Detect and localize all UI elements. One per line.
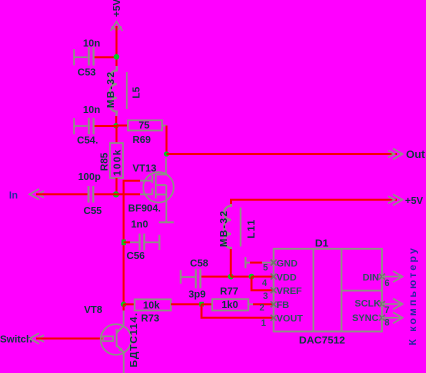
node junction VT8 collector/R73 [121, 302, 127, 308]
svg-text:R69: R69 [133, 135, 152, 146]
power +5V top label [112, 0, 123, 17]
wire SYNC stub [382, 312, 403, 323]
wire node to R77 [202, 303, 213, 305]
node junction rail/C56 [122, 240, 126, 246]
wire L5 to node [115, 116, 117, 127]
svg-text:БДТС114.: БДТС114. [128, 312, 140, 367]
wire collector [123, 304, 125, 325]
pin cross VOUT [271, 315, 277, 321]
svg-text:10n: 10n [83, 39, 100, 50]
wire node to gate1 [117, 193, 153, 195]
wire R69 to out node [166, 126, 168, 155]
node junction C53/+5V [114, 54, 120, 60]
wire node to R69 [116, 125, 128, 127]
wire VOUT pin [202, 304, 274, 318]
svg-text:C56: C56 [127, 251, 146, 262]
svg-text:R85: R85 [100, 152, 111, 171]
svg-text:R77: R77 [220, 287, 239, 298]
transistor VT8 [84, 305, 140, 368]
wire DIN stub [382, 271, 403, 282]
svg-text:VT8: VT8 [84, 305, 103, 316]
svg-text:C54.: C54. [77, 136, 98, 147]
svg-text:К компьютеру: К компьютеру [407, 246, 419, 346]
wire C54 to node [95, 125, 117, 127]
wire L11 bottom to node [230, 249, 232, 277]
svg-text:10k: 10k [143, 301, 160, 312]
svg-text:L5: L5 [132, 86, 143, 98]
capacitor C54 [74, 105, 100, 147]
inductor L5 [106, 66, 143, 117]
node junction VDD/VREF [249, 274, 255, 280]
svg-text:Switch: Switch [0, 335, 32, 346]
svg-text:GND: GND [277, 258, 298, 269]
wire VT8 emitter [123, 352, 125, 373]
svg-text:FB: FB [277, 300, 290, 311]
pin cross SCLK [379, 301, 385, 307]
svg-text:2: 2 [260, 303, 265, 313]
svg-text:VOUT: VOUT [277, 314, 304, 325]
svg-text:1k0: 1k0 [222, 300, 239, 311]
capacitor C55 [78, 172, 102, 217]
pin cross VREF [271, 287, 277, 293]
port Switch arrow [30, 333, 45, 344]
wire C53 to +5V rail [95, 56, 117, 58]
wire Out [167, 153, 398, 155]
svg-text:VT13: VT13 [133, 164, 157, 175]
node junction R73/R77/VOUT [199, 302, 204, 307]
svg-text:100k: 100k [113, 149, 124, 176]
ground C56 [158, 235, 160, 250]
node junction drain/out [164, 151, 169, 156]
svg-text:VREF: VREF [277, 286, 303, 297]
svg-text:8: 8 [385, 318, 390, 328]
wire In to C55 [36, 193, 88, 195]
pin cross SYNC [379, 315, 385, 321]
node junction L5/C54/R69/R85 [113, 123, 119, 129]
pin cross DIN [379, 274, 385, 280]
capacitor C53 [74, 39, 100, 79]
svg-text:SCLK: SCLK [355, 299, 381, 310]
pin cross FB [271, 301, 277, 307]
svg-text:10n: 10n [83, 105, 100, 116]
wire node to R73 [124, 303, 135, 305]
wire SCLK stub [382, 299, 403, 310]
svg-text:3p9: 3p9 [189, 290, 207, 301]
transistor VT13 [128, 158, 174, 215]
wire R77 to FB pin [253, 303, 274, 305]
svg-text:75: 75 [139, 121, 151, 132]
svg-text:C55: C55 [84, 206, 103, 217]
svg-text:1n0: 1n0 [131, 220, 149, 231]
svg-text:МВ-32: МВ-32 [106, 70, 117, 108]
port +5V right arrow [388, 194, 403, 205]
svg-text:BF904.: BF904. [128, 204, 161, 215]
resistor R73 10k [135, 299, 171, 324]
svg-text:C53: C53 [78, 68, 97, 79]
wire L11 top to +5V [231, 200, 397, 204]
svg-text:R73: R73 [141, 314, 160, 325]
capacitor C56 1n0 [124, 220, 160, 263]
wire +5V rail [116, 26, 118, 66]
svg-text:C58: C58 [190, 259, 209, 270]
capacitor C58 3p9 [181, 259, 209, 301]
svg-text:3: 3 [263, 291, 268, 301]
svg-text:+5V: +5V [405, 196, 423, 207]
resistor R85 100k [100, 143, 124, 178]
wire gate2 rail [124, 181, 153, 305]
wire R73 to node [171, 303, 202, 305]
wire VDD pin [252, 276, 274, 278]
svg-text:5: 5 [263, 263, 268, 273]
wire C58 to supply node [201, 276, 230, 278]
power +5V top arrow [111, 22, 123, 32]
pin cross GND [271, 260, 277, 266]
svg-text:6: 6 [385, 278, 390, 288]
wire C55 to node [94, 193, 116, 195]
svg-text:+5V: +5V [112, 0, 123, 17]
svg-text:100p: 100p [78, 172, 101, 183]
svg-text:SYNC: SYNC [352, 313, 379, 324]
ground VT13 source [159, 221, 174, 223]
svg-text:МВ-32: МВ-32 [219, 209, 230, 247]
inductor L11 [219, 201, 258, 250]
wire node to VDD node [231, 276, 252, 278]
node junction In/R85/gate1 [113, 191, 119, 197]
wire VREF pin [252, 277, 274, 291]
wire Switch to VT8 base [36, 338, 103, 340]
wire node to R85 [116, 126, 118, 144]
svg-text:L11: L11 [247, 219, 258, 239]
resistor R69 75 [128, 120, 167, 146]
svg-text:D1: D1 [315, 238, 329, 250]
wire R85 to in node [116, 178, 118, 195]
op-amp U1 : IC D1 DAC7512 body [274, 238, 382, 347]
svg-text:1: 1 [261, 318, 266, 328]
pin cross VDD [271, 274, 277, 280]
svg-text:DAC7512: DAC7512 [299, 335, 345, 347]
svg-text:DIN: DIN [363, 272, 380, 283]
wire VT13 source to ground [165, 195, 167, 223]
ground GND pin [246, 257, 274, 268]
resistor R77 1k0 [212, 287, 253, 311]
port In arrow [30, 189, 45, 200]
svg-text:Out: Out [406, 149, 425, 161]
svg-text:In: In [9, 191, 18, 202]
svg-text:VDD: VDD [277, 272, 297, 283]
port Out arrow [388, 149, 403, 160]
svg-text:4: 4 [262, 278, 267, 288]
node junction L11/C58 [228, 274, 234, 280]
